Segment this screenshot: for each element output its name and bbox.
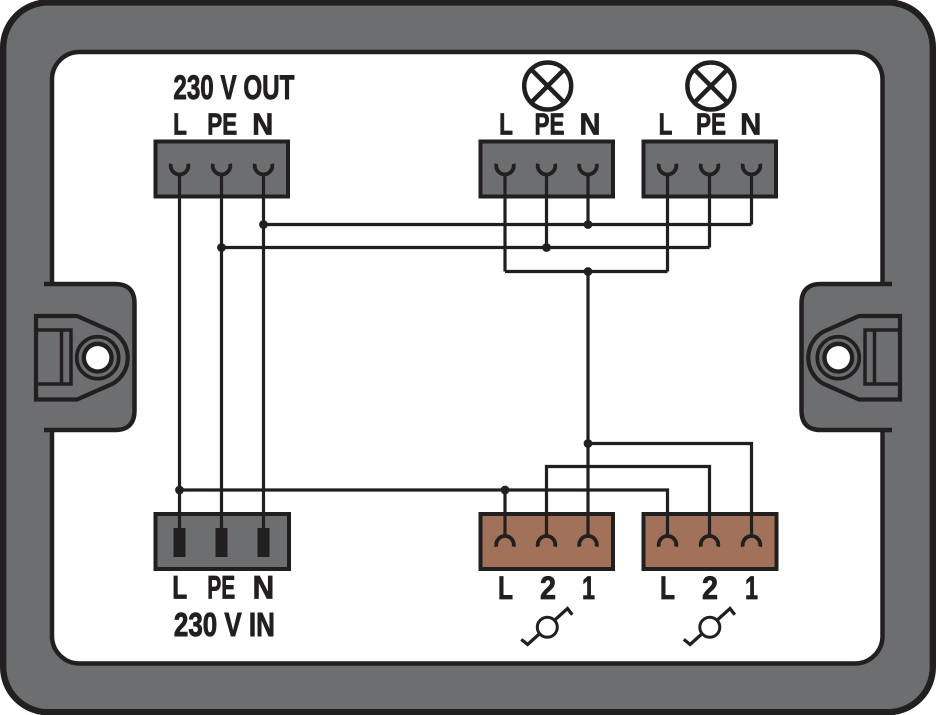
junction dot L bus left xyxy=(175,486,184,495)
wire X3-N drop xyxy=(750,174,753,225)
svg-text:PE: PE xyxy=(207,570,235,606)
junction dot switched feed xyxy=(584,439,593,448)
terminal block X6 switch2 body xyxy=(644,514,777,569)
enclosure inner window xyxy=(52,52,883,664)
terminal block X1 230V OUT body xyxy=(156,142,289,197)
right mounting tab xyxy=(802,284,901,430)
wire L drop to X5-L xyxy=(503,490,506,535)
left mounting tab xyxy=(44,284,135,430)
svg-text:N: N xyxy=(580,108,601,142)
svg-text:L: L xyxy=(499,108,513,142)
wire X2-N drop xyxy=(586,174,589,225)
wire L bus to X6-L xyxy=(180,490,668,535)
wire X2-PE drop xyxy=(545,174,548,248)
junction dot PE bus lamp1 xyxy=(542,243,551,252)
contact X1-N xyxy=(255,164,273,175)
svg-text:PE: PE xyxy=(207,108,237,142)
svg-text:2: 2 xyxy=(540,570,556,606)
terminal block X5 switch1 body xyxy=(481,514,614,569)
contact X2-N xyxy=(579,164,597,175)
wire X2-L drop xyxy=(503,174,506,272)
svg-text:N: N xyxy=(740,108,761,142)
wire X1-PE to X4-PE xyxy=(220,174,223,530)
wire L link lamps xyxy=(505,270,668,273)
switch S1 xyxy=(521,609,572,645)
wire N bus xyxy=(264,223,752,226)
wire PE bus xyxy=(222,246,710,249)
contact X6-2 xyxy=(701,536,719,547)
svg-text:L: L xyxy=(660,570,675,606)
svg-text:N: N xyxy=(253,570,275,606)
pin X4-PE xyxy=(216,528,228,557)
junction dot L link switched xyxy=(584,267,593,276)
left mounting lug hole xyxy=(86,346,109,369)
contact X2-L xyxy=(496,164,514,175)
lamp E1 xyxy=(524,63,571,110)
svg-text:1: 1 xyxy=(745,570,758,606)
switch S2 xyxy=(684,609,735,645)
junction dot L bus X5 xyxy=(501,486,510,495)
terminal block X2 lamp1 body xyxy=(481,142,614,197)
right mounting lug outline xyxy=(808,316,900,400)
wire switched line to X6-1 xyxy=(588,444,752,536)
svg-text:N: N xyxy=(252,108,273,142)
lamp E2 xyxy=(687,63,734,110)
pin X4-N xyxy=(258,528,270,557)
junction dot N bus left xyxy=(259,220,268,229)
svg-text:L: L xyxy=(172,570,187,606)
wire X3-L drop xyxy=(666,174,669,272)
terminal block X4 230V IN body xyxy=(156,514,290,569)
contact X3-N xyxy=(743,164,761,175)
contact X5-2 xyxy=(538,536,556,547)
contact X3-PE xyxy=(701,164,719,175)
junction dot PE bus left xyxy=(217,243,226,252)
right mounting lug bracket xyxy=(865,330,900,384)
svg-text:1: 1 xyxy=(582,570,595,606)
wire X1-N to X4-N xyxy=(262,174,265,530)
contact X3-L xyxy=(659,164,677,175)
svg-text:230 V IN: 230 V IN xyxy=(174,606,275,643)
contact X5-1 xyxy=(579,536,597,547)
svg-text:L: L xyxy=(659,108,673,142)
wire X3-PE drop xyxy=(708,174,711,248)
left mounting lug outline xyxy=(36,316,128,400)
contact X6-L xyxy=(659,536,677,547)
right mounting lug hole xyxy=(827,346,850,369)
contact X2-PE xyxy=(538,164,556,175)
svg-text:L: L xyxy=(498,570,513,606)
wire switch link X5-2 to X6-2 xyxy=(547,467,710,536)
contact X5-L xyxy=(496,536,514,547)
svg-text:PE: PE xyxy=(535,108,565,142)
svg-text:230 V OUT: 230 V OUT xyxy=(173,69,294,107)
wire X1-L to X4-L xyxy=(178,174,181,530)
contact X1-L xyxy=(171,164,189,175)
junction dot N bus lamp1 xyxy=(584,220,593,229)
terminal block X3 lamp2 body xyxy=(644,142,777,197)
svg-text:PE: PE xyxy=(696,108,726,142)
svg-text:2: 2 xyxy=(702,570,718,606)
contact X6-1 xyxy=(743,536,761,547)
left mounting lug bracket xyxy=(36,330,71,384)
contact X1-PE xyxy=(213,164,231,175)
svg-text:L: L xyxy=(173,108,187,142)
wire switched line to X5-1 xyxy=(586,272,589,536)
pin X4-L xyxy=(174,528,186,557)
